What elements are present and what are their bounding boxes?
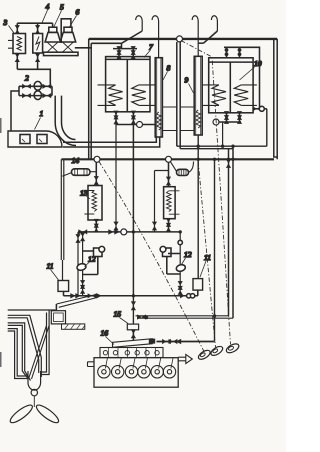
- leader for label 16: [106, 337, 115, 345]
- wire: right return pair down: [229, 146, 234, 318]
- pipe bends into tank: [55, 122, 76, 146]
- wire: box4 riser: [37, 23, 39, 33]
- wire: unit 10 bottom collect line: [219, 121, 241, 123]
- wire: box3 down: [16, 54, 18, 70]
- flow arrows on bus: [108, 229, 113, 234]
- heat exchanger 3: [8, 34, 26, 54]
- node: feed drop / gas line cross: [213, 314, 216, 317]
- unit 7 top risers with valves: [116, 46, 135, 59]
- gauge G3: [225, 342, 240, 355]
- valve above 13 right: [166, 177, 171, 186]
- junction circle unit 7 drain: [137, 122, 143, 128]
- valve on gas return: [137, 314, 146, 319]
- capillary leader to G2: [198, 162, 215, 348]
- fuel tank 1: [8, 131, 62, 147]
- engine output shaft with arrow: [178, 354, 192, 363]
- heater 13 right: [164, 187, 180, 219]
- evaporator unit 10: [202, 58, 257, 113]
- wire: engine feed drop from distribution line: [214, 159, 216, 341]
- flow arrows on lower bus: [70, 293, 75, 298]
- wire: vent diagonal pair to lower bus: [57, 295, 97, 308]
- svg-text:5: 5: [60, 3, 64, 12]
- svg-text:3: 3: [3, 18, 8, 27]
- leader for label 8: [163, 72, 168, 81]
- engine cylinders: [98, 358, 176, 378]
- junction circle on header: [177, 36, 183, 42]
- wire: mid fuel line down: [132, 125, 134, 296]
- node: bus right end: [179, 230, 182, 233]
- wire: sub-header to evaporator 7 risers: [91, 43, 137, 48]
- wire: header drop pair to right liquid line: [177, 42, 180, 149]
- svg-text:4: 4: [46, 2, 50, 11]
- circles on lower bus right: [187, 294, 191, 298]
- funnel crossing pipe: [29, 325, 49, 379]
- wire: mixing bus line: [78, 231, 180, 233]
- junction circle left tap: [94, 156, 100, 162]
- leader for label 3: [9, 26, 15, 34]
- funnel right wall: [40, 310, 49, 375]
- wire: mid line to shut-off 15: [132, 296, 134, 324]
- gauge pot 14 left: [62, 169, 96, 176]
- wire: bypass line right: [155, 171, 169, 232]
- scan edge smudges: [0, 118, 2, 367]
- valves on engine supply: [162, 339, 171, 344]
- wire: right liquid lines: [177, 146, 267, 149]
- svg-text:15: 15: [114, 310, 122, 319]
- metering block 2: [19, 81, 52, 99]
- valve on right bypass: [152, 222, 157, 231]
- leader for label 9: [189, 84, 194, 94]
- svg-text:6: 6: [76, 8, 80, 17]
- compressor 6: [60, 27, 75, 52]
- valve on left drop: [75, 234, 80, 243]
- filter 11 right: [193, 279, 203, 291]
- gooseneck vent 3 (column 9 stem): [192, 16, 198, 57]
- gooseneck vent 1: [122, 16, 143, 44]
- junction circle unit 10 drain: [213, 119, 219, 125]
- leader for label 12 right: [182, 258, 186, 265]
- valve above 13 left: [94, 176, 99, 185]
- wire: filter 11 right outlet: [197, 290, 199, 296]
- valves below 13 left: [94, 219, 99, 233]
- leader for label 4: [42, 10, 48, 23]
- engine valve cover row: [100, 348, 163, 358]
- svg-text:11: 11: [47, 262, 54, 271]
- wire: unit 10 bottom drop: [222, 122, 224, 146]
- regulator 12 left: [76, 232, 104, 296]
- svg-text:7: 7: [149, 43, 154, 52]
- svg-text:14: 14: [72, 156, 80, 165]
- heater 13 left: [84, 186, 102, 221]
- engine left stub: [88, 362, 95, 367]
- unit 7 bottom risers with valves: [113, 111, 136, 125]
- capillary leader to G1: [99, 162, 204, 352]
- funnel intake pair 3 with down run: [8, 323, 31, 381]
- leader for label 11 right: [200, 261, 206, 277]
- wire: block 2 right drops: [55, 96, 61, 122]
- evaporator unit 7: [98, 57, 156, 112]
- leader for label 15: [120, 318, 129, 324]
- engine block: [94, 358, 178, 388]
- wire: compressor discharge to right riser pair: [75, 47, 91, 49]
- svg-text:16: 16: [101, 329, 109, 338]
- valve below 4: [35, 53, 40, 62]
- wire: lower bus line: [64, 295, 198, 297]
- gooseneck vent 2 (column 8 stem): [152, 16, 159, 58]
- junction circle right tap: [166, 156, 172, 162]
- wire: column 9 drop to filter 11 right: [197, 135, 199, 279]
- wire: main liquid distribution line: [62, 158, 275, 160]
- column 8: [155, 58, 177, 137]
- svg-text:10: 10: [254, 59, 262, 68]
- funnel intake pair 4 left wall: [8, 329, 29, 379]
- unit 10 bottom risers with valves: [224, 111, 242, 124]
- wire: filter 11 left outlet: [63, 291, 65, 295]
- svg-text:9: 9: [185, 76, 189, 85]
- node: bus / mid line cross: [132, 230, 135, 233]
- leader for label 12 left: [85, 262, 90, 267]
- exhaust duct with hatching: [62, 324, 85, 329]
- leader for label 5: [54, 11, 62, 27]
- flow arrow on lower bus: [96, 293, 101, 298]
- svg-text:8: 8: [167, 64, 171, 73]
- filter 11 left: [58, 281, 69, 292]
- valve on lower bus left: [88, 293, 97, 298]
- node dots on distribution line: [197, 158, 200, 161]
- leader for label 7: [144, 50, 151, 58]
- wire: feed to filter 11 left: [61, 159, 64, 280]
- svg-text:2: 2: [25, 74, 29, 83]
- wire: unit 10 drain drop: [266, 109, 268, 146]
- wire: unit 7 bottom collect line: [116, 124, 155, 126]
- compressor 5: [45, 23, 60, 52]
- valve on lower bus right: [180, 293, 189, 298]
- valve on bus left end: [78, 229, 87, 234]
- funnel intake line 1: [8, 309, 56, 311]
- leader for label 1: [35, 118, 41, 130]
- leader for label 13: [85, 195, 91, 200]
- capillary leader to G3: [181, 41, 231, 345]
- node: lower bus / mid line cross: [132, 294, 135, 297]
- wire: box3 riser to top line: [16, 23, 18, 33]
- wire: inlet bridge over compressor 6: [61, 19, 71, 43]
- regulator 12 right: [160, 232, 186, 296]
- valve on left bypass: [113, 222, 118, 231]
- wire: block 2 left drop to tank: [11, 91, 19, 131]
- valve above 3: [15, 25, 20, 34]
- valve above 4: [35, 25, 40, 34]
- valve below 15: [131, 329, 136, 340]
- wire: box4 down: [37, 53, 39, 69]
- gauge G1: [197, 349, 212, 362]
- valves below 13 right: [166, 218, 171, 232]
- funnel intake pair 2 with crossing run: [8, 315, 42, 377]
- node dots on right liquid line: [197, 145, 200, 148]
- wire: left tap drop to heater 13: [95, 162, 97, 185]
- wire: unit 10 top line: [224, 47, 260, 109]
- wire: bypass line left: [115, 125, 117, 232]
- valve above 15: [131, 301, 136, 310]
- wire: tank outlet pipe pair to column 8 foot: [63, 137, 160, 147]
- valve below 3: [15, 53, 20, 62]
- wire: top suction line: [17, 22, 52, 24]
- gauge G2: [209, 345, 224, 358]
- funnel outlet teardrop: [28, 371, 41, 396]
- valves on block 2 rails: [22, 84, 31, 89]
- gooseneck vent 4: [198, 16, 217, 43]
- svg-text:12: 12: [184, 250, 192, 259]
- propeller: [8, 396, 61, 426]
- leader for label 6: [70, 16, 77, 28]
- shut-off device 15: [127, 324, 138, 330]
- gauge pot 14 right: [171, 162, 194, 176]
- svg-text:1: 1: [40, 109, 44, 118]
- wire: coolers down-comer to valve block: [17, 69, 50, 86]
- wire: riser pair from compressors to header: [89, 39, 92, 159]
- main gas header line: [89, 38, 278, 40]
- unit 10 drain valve and circle: [253, 106, 267, 111]
- electric heater 4: [33, 34, 43, 54]
- engine 16 intake manifold: [113, 339, 156, 348]
- unit 10 top risers with flange valves: [225, 47, 242, 58]
- valve on return line: [226, 159, 231, 168]
- baseplate under compressors: [44, 52, 79, 55]
- junction circle on bus: [121, 229, 127, 235]
- wire: right tap drop to heater 13 right: [168, 162, 170, 186]
- silencer box at funnel top: [51, 304, 65, 324]
- column 9: [180, 56, 202, 135]
- wire: far right elbow pair: [274, 39, 277, 159]
- wire: engine supply elbow to manifold: [157, 341, 215, 343]
- leader for label 10: [240, 67, 255, 80]
- leader for label 11 left: [51, 270, 59, 281]
- wire: bus left drop: [77, 232, 79, 296]
- wire: gas return pair to funnel: [136, 316, 234, 318]
